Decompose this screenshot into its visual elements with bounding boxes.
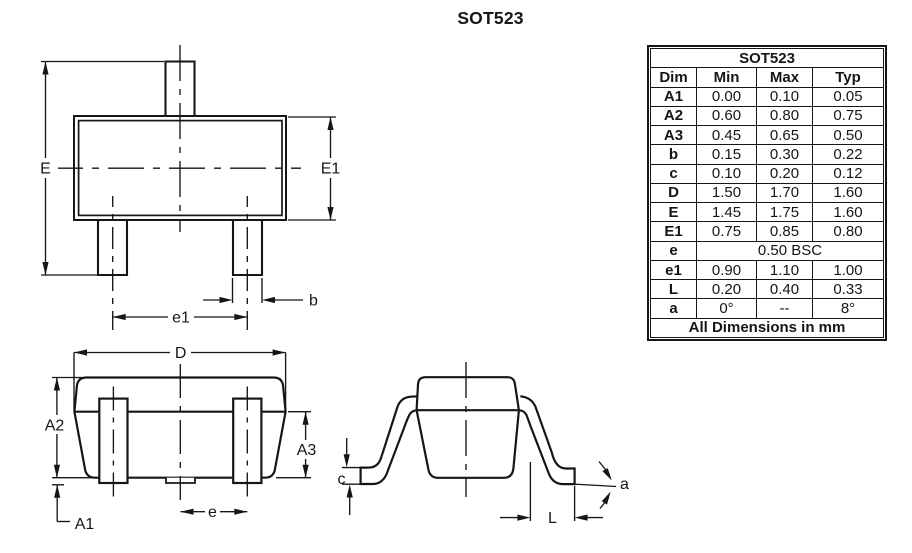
side view body lower outline — [417, 410, 519, 478]
dimension L right arrow — [580, 517, 603, 519]
dimension a reference line — [575, 484, 616, 486]
side view right gull-wing lead — [519, 396, 575, 484]
label e1 — [168, 307, 194, 326]
side view body cap outline — [417, 377, 519, 410]
top view horizontal centerline — [58, 167, 301, 169]
dimension a lower leader arrow — [600, 498, 609, 509]
top view left bottom pin — [98, 220, 127, 275]
dimension table — [647, 45, 887, 341]
svg-text:A3: A3 — [297, 442, 317, 459]
dimension E extension line top — [41, 61, 164, 63]
front view left lead — [99, 399, 127, 483]
svg-text:D: D — [175, 345, 187, 362]
top view right bottom pin — [233, 220, 262, 275]
dimension b left arrow — [203, 299, 227, 301]
label E — [36, 158, 55, 178]
label e — [205, 502, 220, 521]
front view parting line — [74, 411, 285, 413]
svg-text:e: e — [208, 504, 217, 521]
svg-text:b: b — [309, 293, 318, 310]
side view left gull-wing lead — [361, 396, 418, 484]
label A3 — [293, 440, 320, 459]
dimension L left arrow — [500, 517, 525, 519]
top view tab lead (top center pin) — [166, 62, 195, 117]
label A2 — [41, 415, 69, 434]
front view package centerline — [179, 364, 181, 500]
dimension E extension line bottom — [41, 274, 97, 276]
svg-text:L: L — [548, 510, 557, 527]
svg-text:c: c — [338, 471, 346, 488]
label D — [170, 343, 191, 362]
svg-text:A2: A2 — [45, 418, 65, 435]
dimension c extension lines — [342, 467, 361, 469]
top view body outer outline — [74, 116, 286, 220]
dimension b extension lines — [232, 278, 234, 303]
side view centerline — [465, 362, 467, 497]
dimension L extension lines — [529, 462, 531, 521]
dimension E1 line — [330, 117, 332, 220]
dimension c arrows — [346, 438, 348, 461]
dimension E1 extension line top — [288, 116, 336, 118]
svg-text:E: E — [40, 161, 51, 178]
side view body parting line — [417, 409, 519, 411]
front view body outline — [74, 378, 285, 478]
front view right lead — [233, 399, 261, 483]
dimension e1 line — [113, 316, 248, 318]
dimension D extension lines — [73, 353, 75, 412]
dimension D line — [74, 352, 286, 354]
dimension e line — [181, 511, 248, 513]
dimension A3 line — [305, 412, 307, 478]
svg-text:a: a — [620, 476, 629, 493]
dimension A2 extension lines — [52, 377, 82, 379]
front view left lead centerline — [112, 387, 114, 498]
dimension E line — [45, 62, 47, 276]
front view right lead centerline — [246, 387, 248, 501]
dimension A3 extension lines — [288, 411, 311, 413]
top view right pin centerline — [246, 196, 248, 330]
top view left pin centerline — [112, 196, 114, 330]
dimension A2 line — [56, 378, 58, 478]
dimension b right arrow and leader — [267, 299, 303, 301]
svg-text:E1: E1 — [321, 161, 341, 178]
dimension E1 extension line bottom — [288, 219, 336, 221]
title SOT523 — [0, 8, 912, 29]
dimension A1 line and leader — [56, 485, 58, 522]
svg-text:e1: e1 — [172, 310, 190, 327]
dimension a upper leader arrow — [599, 462, 610, 475]
label E1 — [318, 158, 344, 178]
top view vertical centerline — [179, 45, 181, 232]
dimension A1 extension line — [52, 484, 64, 486]
svg-text:A1: A1 — [75, 516, 95, 533]
top view body inner outline — [79, 121, 282, 216]
front view center back lead tab — [166, 478, 195, 483]
